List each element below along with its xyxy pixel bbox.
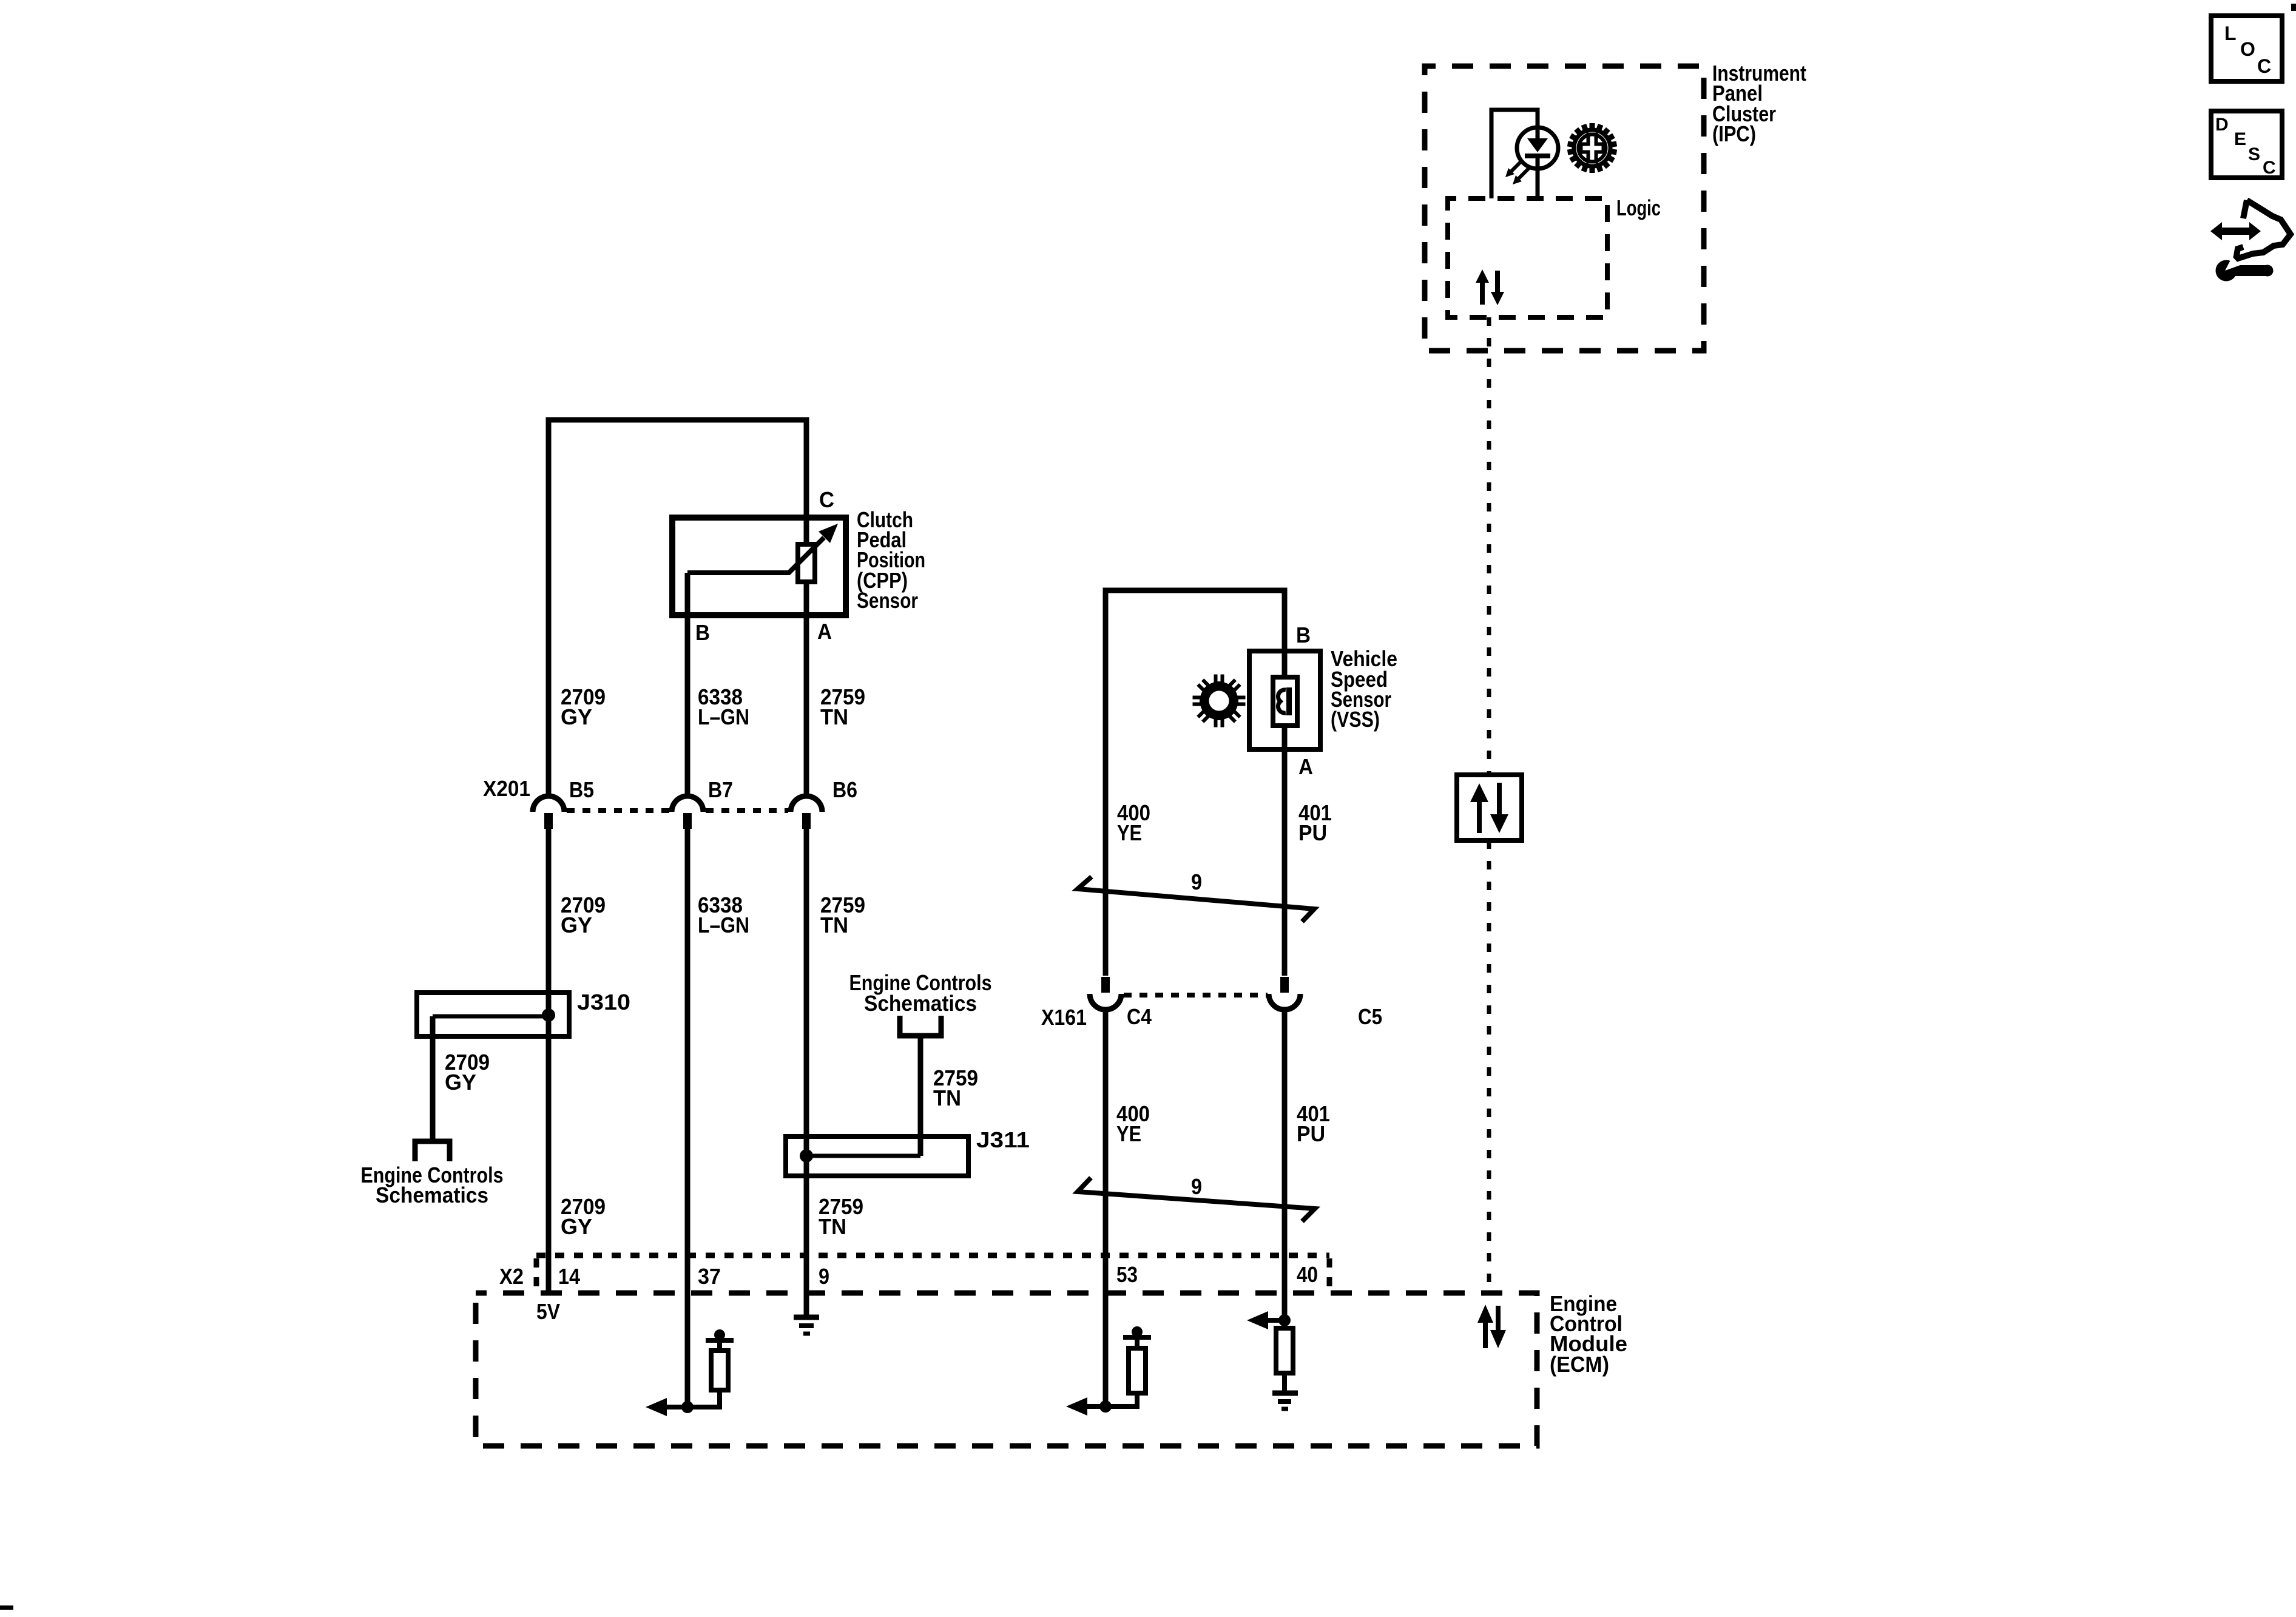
wire label 2759 TN (J311 branch) bbox=[933, 1065, 978, 1110]
engine control module (ECM) dashed box bbox=[476, 1293, 1537, 1446]
svg-text:TN: TN bbox=[820, 913, 848, 937]
svg-text:TN: TN bbox=[933, 1085, 961, 1110]
svg-text:TN: TN bbox=[820, 704, 848, 729]
pin 40 internal: junction dot, signal arrow, resistor to ground bbox=[1247, 1311, 1298, 1409]
J310 junction dot on wire 2709 bbox=[542, 1008, 555, 1022]
wire label 2709 GY (J310 branch) bbox=[445, 1050, 490, 1095]
wire label 2759 TN (CPP low, above X201) bbox=[820, 684, 865, 729]
wire label 6338 L-GN (below X201) bbox=[698, 893, 749, 937]
svg-text:GY: GY bbox=[445, 1070, 476, 1095]
svg-text:D: D bbox=[2215, 115, 2229, 135]
svg-text:GY: GY bbox=[561, 1214, 592, 1239]
branch wire from J310 to engine controls schematics bbox=[430, 1016, 436, 1140]
page corner artifact marks bbox=[2291, 4, 2296, 11]
LOC legend box bbox=[2211, 16, 2282, 81]
svg-text:B: B bbox=[1296, 623, 1311, 647]
clutch pedal position (CPP) sensor box bbox=[672, 518, 846, 615]
wire label 2709 GY (below X201) bbox=[561, 893, 606, 937]
ECM internal serial data arrows bbox=[1477, 1305, 1506, 1348]
wire label 2759 TN (below X201) bbox=[820, 893, 865, 937]
svg-text:40: 40 bbox=[1297, 1262, 1318, 1287]
svg-text:L–GN: L–GN bbox=[698, 913, 749, 937]
svg-text:Schematics: Schematics bbox=[864, 991, 977, 1016]
svg-text:5V: 5V bbox=[536, 1299, 560, 1324]
twisted pair symbol with conductor count 9 (below X161) bbox=[1078, 1174, 1315, 1221]
svg-text:YE: YE bbox=[1117, 820, 1142, 845]
LED indicator lamp in IPC bbox=[1505, 127, 1558, 184]
VSS inductive pickup body bbox=[1273, 651, 1297, 749]
wire 2709 GY from X201 B5 to ECM pin 14 bbox=[546, 829, 552, 1293]
svg-text:(VSS): (VSS) bbox=[1331, 707, 1380, 732]
wire label 401 PU (above X161) bbox=[1298, 800, 1332, 845]
svg-text:C5: C5 bbox=[1358, 1004, 1382, 1029]
svg-text:PU: PU bbox=[1298, 820, 1327, 845]
svg-text:9: 9 bbox=[819, 1264, 829, 1289]
wire label 401 PU (below X161) bbox=[1297, 1101, 1330, 1146]
svg-text:9: 9 bbox=[1191, 1174, 1202, 1199]
wire label 2759 TN (above ECM pin 9) bbox=[819, 1194, 863, 1239]
svg-text:(IPC): (IPC) bbox=[1712, 121, 1756, 146]
J311 junction dot on wire 2759 bbox=[800, 1149, 813, 1163]
wire label 2709 GY (above ECM pin 14) bbox=[561, 1194, 606, 1239]
splice J311 box bbox=[786, 1136, 968, 1176]
svg-text:53: 53 bbox=[1116, 1262, 1138, 1287]
X201 dashed connector line B5-B7 bbox=[567, 808, 669, 813]
odometer gear icon in IPC bbox=[1567, 123, 1617, 173]
svg-text:PU: PU bbox=[1297, 1121, 1325, 1146]
svg-text:B7: B7 bbox=[708, 777, 733, 802]
off-page connector fork (to engine controls schematics, left) bbox=[415, 1141, 450, 1161]
svg-text:GY: GY bbox=[561, 913, 592, 937]
pin 9 internal ground bbox=[794, 1317, 819, 1334]
svg-text:A: A bbox=[817, 619, 832, 644]
X161 cavity C4 (pin + arc) bbox=[1090, 977, 1121, 1010]
svg-text:L–GN: L–GN bbox=[698, 704, 749, 729]
wire 400 YE from X161 C4 down to ECM pin 53 bbox=[1103, 1009, 1109, 1406]
off-page connector fork (from engine controls schematics, right) bbox=[900, 1016, 941, 1036]
wire label 400 YE (below X161) bbox=[1116, 1101, 1150, 1146]
svg-text:C: C bbox=[2257, 55, 2271, 77]
splice J310 box bbox=[417, 993, 569, 1036]
logic bidirectional serial arrows bbox=[1476, 269, 1504, 305]
VSS name label bbox=[1331, 646, 1397, 732]
diagnostic tool legend icon (double arrow, component outline, wrench) bbox=[2210, 200, 2291, 282]
engine controls schematics label (left) bbox=[361, 1163, 504, 1207]
wire label 400 YE (above X161) bbox=[1117, 800, 1150, 845]
wire: CPP A terminal (pot bottom) down to X201 B6 bbox=[804, 582, 809, 797]
svg-text:37: 37 bbox=[698, 1264, 721, 1289]
svg-text:C: C bbox=[2263, 158, 2276, 178]
svg-text:C: C bbox=[819, 487, 834, 512]
X161 cavity C5 (pin + arc) bbox=[1269, 977, 1300, 1010]
CPP sensor name label bbox=[857, 507, 925, 613]
serial data wire (dashed) from IPC to ECM bbox=[1487, 317, 1491, 1293]
VSS loop wire (B terminal up over to 400 YE side) bbox=[1106, 590, 1285, 976]
X201 cavity B5 (arc + pin) bbox=[533, 796, 564, 829]
X201 cavity B6 (arc + pin) bbox=[791, 796, 822, 829]
serial data interface box on dashed wire bbox=[1457, 775, 1522, 840]
wire 6338 L-GN from X201 B7 down to ECM pin 37 bbox=[685, 829, 690, 1407]
J311 bus bar bbox=[806, 1154, 920, 1158]
svg-text:X201: X201 bbox=[483, 776, 530, 801]
logic dashed box bbox=[1448, 198, 1607, 317]
svg-text:Sensor: Sensor bbox=[857, 588, 918, 613]
wire: CPP B wiper down to X201 B7 bbox=[685, 573, 690, 797]
svg-text:X2: X2 bbox=[499, 1264, 524, 1289]
serial box bidirectional arrows bbox=[1470, 783, 1508, 833]
svg-text:X161: X161 bbox=[1041, 1005, 1087, 1030]
pin 37 internal pull-up: junction dot, signal arrow, resistor to 5V bbox=[646, 1329, 734, 1416]
svg-text:B6: B6 bbox=[832, 777, 857, 802]
svg-text:B5: B5 bbox=[569, 777, 594, 802]
svg-text:O: O bbox=[2240, 38, 2255, 60]
svg-text:A: A bbox=[1298, 754, 1313, 779]
X201 cavity B7 (arc + pin) bbox=[672, 796, 703, 829]
svg-text:Schematics: Schematics bbox=[376, 1183, 488, 1207]
svg-text:GY: GY bbox=[561, 704, 592, 729]
svg-text:E: E bbox=[2234, 129, 2246, 149]
wire 2759 TN from X201 B6 down to ECM pin 9 bbox=[804, 829, 809, 1315]
vehicle speed sensor (VSS) box bbox=[1249, 651, 1320, 749]
wire label 6338 L-GN (CPP signal, above X201) bbox=[698, 684, 749, 729]
ECM connector X2 dotted line bbox=[536, 1255, 1329, 1290]
svg-text:9: 9 bbox=[1191, 869, 1202, 894]
svg-text:J311: J311 bbox=[976, 1127, 1030, 1152]
CPP wiper arm with arrow bbox=[687, 524, 838, 573]
X161 dashed connector line C4-C5 bbox=[1124, 993, 1268, 998]
wire label 2709 GY (CPP 5V, above X201) bbox=[561, 684, 606, 729]
CPP potentiometer body bbox=[798, 544, 815, 582]
svg-text:C4: C4 bbox=[1127, 1004, 1152, 1029]
engine controls schematics label (right) bbox=[849, 970, 992, 1016]
wire 401 PU from X161 C5 down to ECM pin 40 bbox=[1282, 1009, 1288, 1320]
pin 53 internal pull-up: junction dot, signal arrow, resistor to 5V bbox=[1066, 1326, 1151, 1416]
X201 dashed connector line B7-B6 bbox=[706, 808, 788, 813]
wire from VSS A terminal down to X161 C5 bbox=[1282, 749, 1288, 976]
svg-text:L: L bbox=[2224, 22, 2237, 44]
ECM name label bbox=[1550, 1291, 1627, 1377]
branch wire from fork down to splice J311 bbox=[918, 1036, 923, 1156]
svg-text:(ECM): (ECM) bbox=[1550, 1352, 1609, 1377]
VSS reluctor gear icon bbox=[1192, 673, 1246, 728]
svg-text:J310: J310 bbox=[577, 990, 630, 1014]
IPC name label bbox=[1712, 61, 1806, 146]
wire from LED to logic box bbox=[1491, 110, 1538, 198]
svg-text:Logic: Logic bbox=[1616, 195, 1661, 220]
svg-text:14: 14 bbox=[558, 1264, 580, 1289]
instrument panel cluster (IPC) dashed box bbox=[1425, 66, 1704, 351]
twisted pair symbol with conductor count 9 (above X161) bbox=[1078, 869, 1314, 922]
svg-text:YE: YE bbox=[1116, 1121, 1141, 1146]
J310 bus bar bbox=[433, 1014, 549, 1019]
5V supply loop wire from ECM to CPP sensor (top) bbox=[549, 420, 806, 797]
svg-text:TN: TN bbox=[819, 1214, 846, 1239]
svg-text:B: B bbox=[695, 620, 710, 645]
DESC legend box bbox=[2211, 111, 2282, 178]
svg-text:S: S bbox=[2248, 144, 2260, 164]
